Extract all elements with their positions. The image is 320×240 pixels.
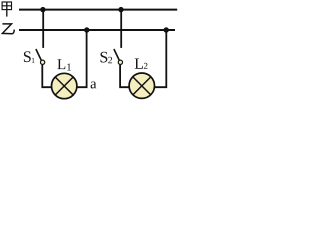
switch S1 blade xyxy=(36,49,41,60)
lamp L1 xyxy=(51,73,76,98)
junction node on 乙 line for L1 branch (node a) xyxy=(84,27,89,32)
switch S2 blade xyxy=(114,49,119,60)
label 乙 (feed wire B) xyxy=(2,24,14,34)
label S2 xyxy=(101,52,113,63)
lamp L2 xyxy=(129,73,154,98)
label S1 xyxy=(24,51,35,62)
wire: S1 to lamp L1 (down and right) xyxy=(42,65,51,88)
label 甲 (feed wire A) xyxy=(2,2,11,17)
junction node on 甲 line for L1 branch xyxy=(40,7,45,12)
label node a xyxy=(91,82,97,89)
wire: second feed line 乙 xyxy=(19,29,175,31)
wire: vertical drop from 甲 to switch S1 xyxy=(42,10,44,48)
wire: top feed line 甲 xyxy=(19,9,177,11)
wire: lamp L2 right side up to 乙 xyxy=(155,30,167,87)
switch S2 pivot circle xyxy=(118,60,122,64)
wire: S2 to lamp L2 (down and right) xyxy=(120,65,129,88)
switch S1 pivot circle xyxy=(40,60,44,64)
wire: vertical drop from 甲 to switch S2 xyxy=(120,10,122,48)
wire: lamp L1 right side up to 乙 (node a riser) xyxy=(77,30,87,87)
label L2 xyxy=(135,58,148,68)
label L1 xyxy=(57,59,71,70)
junction node on 甲 line for L2 branch xyxy=(118,7,123,12)
junction node on 乙 line for L2 branch xyxy=(164,27,169,32)
